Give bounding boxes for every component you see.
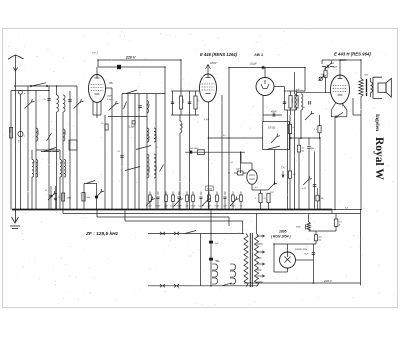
svg-text:0,1µF: 0,1µF	[107, 99, 113, 101]
svg-text:Ingelen: Ingelen	[374, 114, 380, 131]
svg-text:E 446 (RENS 1264): E 446 (RENS 1264)	[200, 52, 238, 57]
svg-text:ZF : 128,5 kHz: ZF : 128,5 kHz	[85, 231, 119, 237]
svg-text:20000Ω 10W: 20000Ω 10W	[294, 249, 308, 251]
svg-text:POT: POT	[270, 192, 275, 194]
svg-text:0,1µF: 0,1µF	[250, 62, 257, 66]
svg-text:0,5µF: 0,5µF	[332, 67, 338, 69]
svg-text:500: 500	[311, 148, 314, 150]
svg-text:300Ω: 300Ω	[207, 188, 212, 190]
svg-text:180V: 180V	[210, 61, 218, 65]
svg-text:1M: 1M	[293, 174, 296, 176]
svg-text:50pF: 50pF	[107, 96, 112, 98]
svg-text:E 443 H (RES 964): E 443 H (RES 964)	[334, 52, 371, 57]
svg-text:0,1µF: 0,1µF	[198, 206, 204, 208]
svg-text:1805: 1805	[279, 230, 287, 234]
svg-text:2: 2	[255, 198, 256, 200]
svg-text:50: 50	[264, 198, 266, 200]
svg-text:220 V: 220 V	[323, 279, 333, 283]
svg-text:8µF: 8µF	[305, 254, 309, 256]
svg-text:Rk: Rk	[321, 198, 323, 200]
svg-text:2nF 600V: 2nF 600V	[190, 148, 199, 150]
svg-text:( RGN 1054 ): ( RGN 1054 )	[271, 235, 291, 239]
svg-text:50µF: 50µF	[177, 206, 182, 208]
svg-text:7000: 7000	[364, 75, 368, 77]
svg-text:5µF: 5µF	[216, 261, 220, 263]
svg-text:AB 1: AB 1	[253, 52, 264, 57]
svg-text:0,1µF: 0,1µF	[204, 119, 210, 121]
svg-text:40µF: 40µF	[271, 111, 277, 114]
svg-text:u n 1: u n 1	[92, 51, 98, 55]
svg-text:10000: 10000	[148, 166, 150, 172]
svg-text:2µF: 2µF	[236, 169, 240, 171]
svg-text:T.A.: T.A.	[281, 167, 285, 170]
svg-text:220 V: 220 V	[125, 55, 136, 59]
svg-text:2µF: 2µF	[215, 243, 219, 245]
svg-text:0,1µF: 0,1µF	[170, 206, 176, 208]
svg-text:50µF: 50µF	[215, 206, 220, 208]
svg-text:25µF: 25µF	[156, 206, 161, 208]
svg-text:25µF: 25µF	[231, 206, 236, 208]
svg-text:25µF: 25µF	[191, 206, 196, 208]
svg-text:67/1Ω: 67/1Ω	[268, 126, 275, 130]
svg-text:1,5µF: 1,5µF	[129, 126, 136, 129]
svg-text:Royal W: Royal W	[373, 137, 385, 180]
svg-text:2MΩ: 2MΩ	[67, 198, 72, 200]
